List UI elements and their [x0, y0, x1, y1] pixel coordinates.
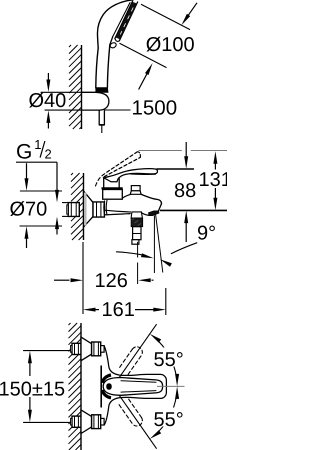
svg-text:131: 131: [199, 169, 228, 191]
svg-text:2: 2: [45, 147, 52, 162]
svg-text:9°: 9°: [197, 223, 216, 245]
svg-text:150±15: 150±15: [0, 379, 65, 401]
svg-text:1500: 1500: [132, 96, 178, 119]
svg-text:Ø100: Ø100: [146, 34, 195, 56]
svg-text:126: 126: [95, 270, 128, 292]
svg-text:Ø40: Ø40: [29, 90, 67, 112]
svg-text:55°: 55°: [154, 349, 184, 371]
svg-text:55°: 55°: [154, 409, 184, 431]
svg-text:Ø70: Ø70: [10, 199, 48, 221]
svg-text:G: G: [16, 141, 32, 164]
svg-text:161: 161: [102, 299, 135, 321]
svg-text:88: 88: [174, 180, 196, 202]
svg-text:1: 1: [34, 137, 41, 152]
